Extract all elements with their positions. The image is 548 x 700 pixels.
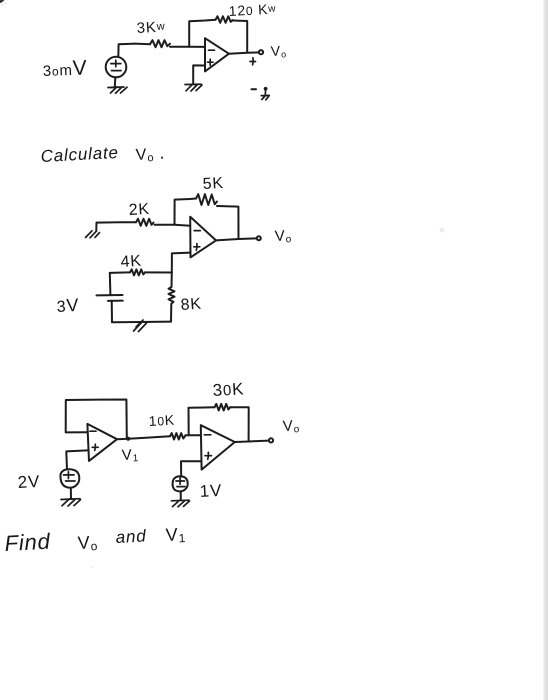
wire VS1 top to node (118, 44, 150, 57)
feedback wire left vertical (189, 20, 215, 47)
minus mark near ref (252, 88, 257, 90)
ground G2 under U1 +input (185, 84, 202, 91)
feedback left vertical (175, 199, 197, 225)
resistor R4 2K zigzag (136, 219, 154, 226)
svg-text:4K: 4K (120, 253, 142, 271)
feedback right wire (230, 407, 249, 441)
svg-text:5K: 5K (202, 175, 224, 193)
svg-text:and: and (115, 526, 147, 547)
resistor R5 4K zigzag (130, 269, 145, 275)
+ input wire U4 to 1V source (181, 461, 201, 477)
voltage source VS1 (106, 57, 127, 78)
wire 4K right to node (145, 271, 172, 273)
svg-text:30K: 30K (212, 379, 245, 400)
battery B1 (3V) top wire (109, 273, 112, 294)
op-amp U4 (201, 425, 235, 469)
svg-text:3V: 3V (56, 295, 80, 316)
voltage source VS3 (1V) (173, 476, 188, 491)
svg-text:2K: 2K (128, 201, 150, 219)
svg-text:Find: Find (4, 529, 51, 556)
input left stub + ground G3 (95, 223, 97, 231)
output wire U1 (229, 52, 259, 53)
svg-text:10K: 10K (148, 412, 175, 429)
wire 4K left (110, 271, 130, 274)
svg-text:1V: 1V (199, 481, 222, 501)
input wire to R4 (97, 221, 137, 223)
feedback left vertical U4 (189, 407, 215, 435)
node dot V1 (126, 437, 130, 441)
reference ground mini symbol (264, 87, 268, 91)
ground G5 under VS2 (61, 499, 81, 506)
ground G6 under VS3 (172, 500, 190, 507)
resistor R6 8K vertical (169, 273, 175, 322)
voltage source VS2 (2V) (60, 469, 79, 488)
feedback wire U3 (direct) (66, 400, 127, 439)
ground ticks G4 on bottom wire (134, 320, 147, 332)
wire R1 to inverting input (170, 46, 205, 48)
op-amp U2 (190, 217, 216, 258)
wire VS1 bottom (114, 77, 117, 86)
output node circle (257, 236, 261, 240)
faint specks (440, 228, 445, 233)
wire +input to ground (193, 65, 205, 83)
resistor R3 5K zigzag (196, 194, 217, 205)
wire VS3 bottom (180, 492, 182, 500)
battery plates (97, 294, 123, 296)
feedback wire right (233, 21, 248, 53)
ground G1 under VS1 (108, 87, 127, 93)
+ input wire U3 to 2V source (66, 450, 87, 469)
op-amp U1 (205, 38, 229, 71)
scan corner mark top-left (0, 0, 5, 3)
svg-text:2V: 2V (17, 472, 40, 492)
output wire U2 (216, 238, 257, 240)
output node circle (259, 50, 263, 54)
wire +input (172, 253, 191, 273)
svg-text:8K: 8K (180, 296, 202, 314)
plus mark under Vo (250, 58, 256, 65)
wire R4 to inverting input (155, 225, 191, 226)
wire R7 to inverting input U4 (185, 434, 200, 436)
output node circle (269, 438, 273, 442)
battery bottom wire (112, 301, 171, 322)
resistor R7 10K zigzag (170, 433, 185, 439)
feedback wire right (217, 206, 239, 238)
resistor R8 30K zigzag (215, 404, 231, 411)
output wire U4 (235, 441, 269, 442)
op-amp U3 (buffer) (87, 424, 117, 461)
wire VS2 bottom (70, 488, 72, 499)
output wire U3 to R7 (117, 436, 170, 439)
resistor R2 120K zigzag (216, 16, 233, 23)
resistor R1 3K zigzag (150, 40, 170, 47)
